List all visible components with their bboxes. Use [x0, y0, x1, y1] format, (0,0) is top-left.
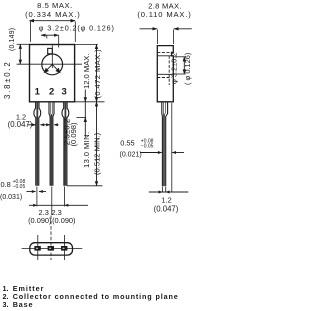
- dim 3.8 dimension line: [17, 44, 30, 65]
- front view body outline: [30, 45, 75, 102]
- dim 3.8 left label: [3, 28, 16, 99]
- svg-text:(0.031): (0.031): [0, 194, 22, 201]
- dim 0.55 label: [120, 139, 154, 159]
- legend line 3: [3, 300, 34, 309]
- hole tab: [48, 48, 53, 53]
- bottom view lead section 2: [48, 246, 54, 251]
- legend line 2: [3, 292, 179, 301]
- dim phi 3.2 dimension line: [41, 34, 59, 48]
- lead 2 (collector): [49, 102, 54, 186]
- svg-text:3.8±0.2: 3.8±0.2: [3, 60, 12, 99]
- dim 1.2 front arrows: [28, 123, 59, 126]
- svg-text:2: 2: [49, 86, 54, 97]
- side view body: [157, 46, 173, 102]
- dim 0.8 arrows: [27, 190, 47, 193]
- svg-text:−0.05: −0.05: [13, 184, 26, 190]
- dim 12.0 MAX vertical labels: [82, 49, 102, 99]
- side lead extension vertical line: [171, 103, 173, 192]
- hole vertical centerline: [51, 45, 53, 68]
- bottom view lead section 3: [61, 246, 67, 251]
- lead 3 (base): [62, 102, 69, 186]
- svg-text:(0.090): (0.090): [52, 216, 75, 225]
- lead 1 (emitter): [34, 102, 41, 186]
- svg-text:Base: Base: [13, 300, 34, 309]
- svg-text:φ 3.2±0.2: φ 3.2±0.2: [169, 53, 178, 84]
- svg-text:3: 3: [62, 86, 67, 97]
- dim 2.8 dimension line: [140, 27, 192, 44]
- dim 13.0 dimension line: [67, 101, 105, 186]
- dim 12.0 dimension line: [75, 44, 99, 102]
- side hole dim phi 3.2 labels: [169, 53, 192, 85]
- svg-text:1.2: 1.2: [161, 195, 172, 204]
- dim 1.2 side labels: [154, 195, 179, 213]
- svg-text:φ 3.2±0.2(φ 0.126): φ 3.2±0.2(φ 0.126): [39, 24, 115, 33]
- dim 2.5 dimension line with outside arrows: [77, 90, 88, 138]
- svg-text:3.: 3.: [3, 300, 9, 309]
- svg-text:Collector connected to mountin: Collector connected to mounting plane: [13, 292, 179, 301]
- svg-text:(0.110 MAX.): (0.110 MAX.): [137, 10, 191, 19]
- dim 13.0 MIN vertical labels: [82, 131, 101, 175]
- svg-text:(0.334 MAX.): (0.334 MAX.): [25, 10, 81, 19]
- hole diameter arrow lower-right: [52, 64, 61, 73]
- dim 2.5 labels: [63, 119, 78, 147]
- dim 0.55 arrows: [140, 151, 184, 154]
- svg-text:−0.05: −0.05: [141, 144, 154, 150]
- svg-text:(0.047): (0.047): [154, 205, 179, 214]
- svg-text:(0.021): (0.021): [120, 152, 142, 159]
- svg-text:13.0 MIN.: 13.0 MIN.: [82, 131, 91, 168]
- svg-text:(0.472 MAX.): (0.472 MAX.): [93, 49, 102, 99]
- dim 2.8 MAX label: [137, 2, 191, 20]
- bottom view vertical centerlines: [38, 216, 65, 261]
- svg-text:1: 1: [35, 86, 41, 97]
- svg-text:(0.090): (0.090): [28, 216, 51, 225]
- bottom view horizontal centerline: [22, 247, 83, 249]
- svg-text:0.55: 0.55: [120, 139, 134, 148]
- side view lead: [162, 102, 168, 186]
- hole diameter arrow lower-left: [44, 64, 53, 73]
- svg-text:(0.149): (0.149): [9, 28, 16, 51]
- svg-text:12.0 MAX.: 12.0 MAX.: [82, 54, 91, 89]
- dim 2.3 extension lines: [37, 187, 65, 216]
- dim 0.8 label: [0, 179, 25, 201]
- legend line 1: [3, 284, 45, 293]
- bottom view outline: [30, 243, 73, 255]
- svg-text:0.8: 0.8: [1, 180, 11, 189]
- bottom view lead section 1: [34, 246, 40, 251]
- dim 2.3 dimension line: [29, 204, 88, 207]
- hole horizontal centerline: [17, 63, 82, 65]
- dim 2.3 labels: [28, 208, 75, 225]
- svg-text:(0.098): (0.098): [69, 122, 78, 147]
- dim 8.5 dimension line: [29, 19, 76, 42]
- dim 1.2 side dimension line: [149, 187, 189, 194]
- dim 1.2 front label: [8, 112, 33, 129]
- mounting hole circle: [42, 54, 63, 75]
- side hole dimension line: [174, 56, 186, 74]
